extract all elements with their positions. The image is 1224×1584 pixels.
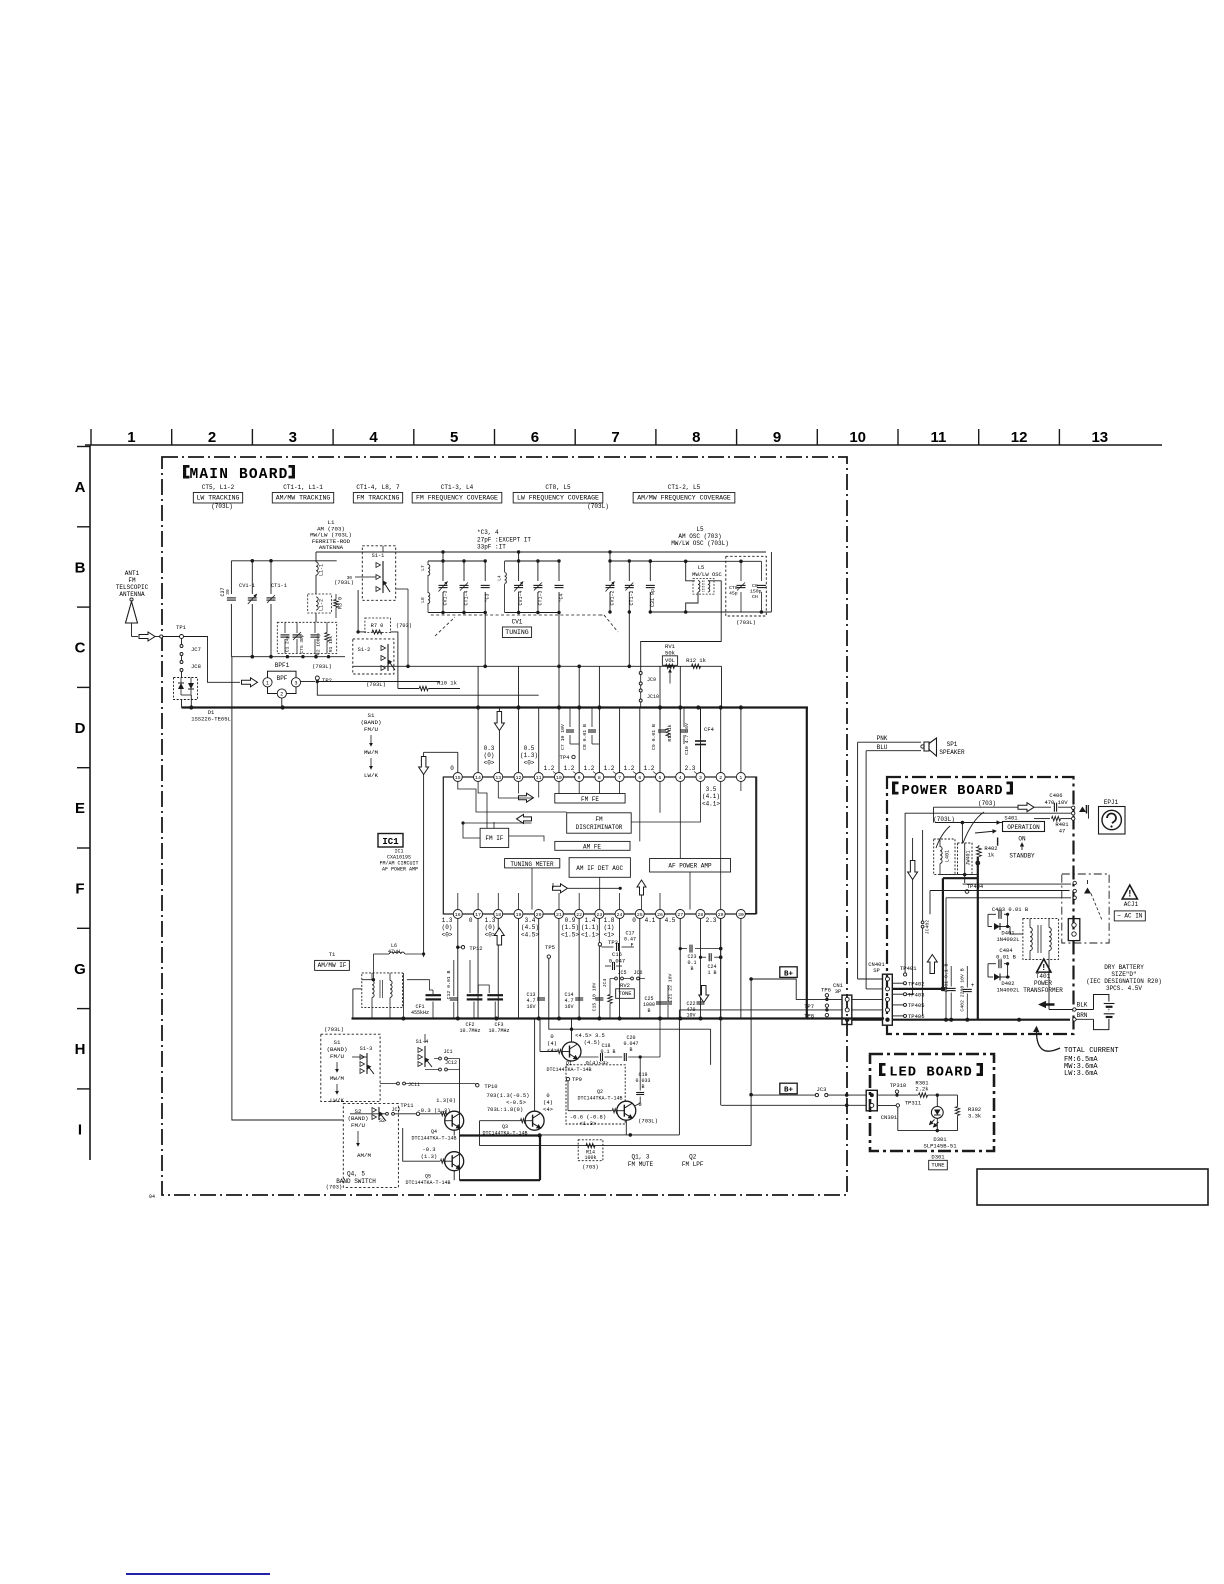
svg-text:S1-4: S1-4 (416, 1039, 429, 1045)
svg-text:(BAND): (BAND) (348, 1115, 369, 1122)
svg-text:1: 1 (739, 775, 742, 781)
IC1 bottom pins 16..30 (453, 910, 462, 919)
svg-text:TP7: TP7 (804, 1003, 814, 1010)
svg-text:13: 13 (1091, 429, 1108, 446)
transistor Q4 (441, 1112, 448, 1116)
svg-text:CT5, L1-2: CT5, L1-2 (202, 484, 235, 491)
svg-text:BPF1: BPF1 (275, 662, 290, 669)
battery symbol (1094, 995, 1109, 1030)
svg-text:LW:3.6mA: LW:3.6mA (1064, 1070, 1098, 1078)
test point TP3 (598, 943, 601, 946)
ceramic filter CF2 (469, 960, 471, 993)
svg-text:150p: 150p (750, 589, 762, 595)
svg-text:7: 7 (618, 775, 621, 781)
svg-text:21: 21 (556, 912, 562, 918)
svg-text:S1-1: S1-1 (372, 553, 385, 559)
svg-text:1.3: 1.3 (485, 917, 496, 924)
svg-text:B: B (690, 966, 693, 972)
svg-text:L4: L4 (497, 575, 503, 581)
svg-text:AF POWER AMP: AF POWER AMP (382, 867, 418, 873)
svg-text:14: 14 (475, 775, 481, 781)
LED BOARD dash-dot border (870, 1054, 994, 1151)
svg-text:A: A (75, 479, 86, 496)
IC1 internal arrows (519, 793, 534, 802)
svg-text:JC1: JC1 (443, 1049, 452, 1055)
svg-text:455kHz: 455kHz (411, 1010, 429, 1016)
FM osc bank L4 CV1-4 CT1-3 C4 (505, 560, 559, 562)
svg-text:ANT1: ANT1 (125, 570, 140, 577)
svg-text:0.5: 0.5 (524, 745, 535, 752)
svg-text:L5: L5 (696, 526, 704, 533)
svg-text:1.2: 1.2 (564, 765, 575, 772)
test point TP12 (461, 946, 464, 949)
svg-text:25: 25 (637, 912, 643, 918)
svg-text:JW401: JW401 (966, 850, 972, 865)
svg-text:(703L): (703L) (587, 503, 609, 510)
svg-text:MW/LW OSC: MW/LW OSC (692, 571, 722, 578)
svg-text:1.2: 1.2 (604, 765, 615, 772)
svg-text:3: 3 (699, 775, 702, 781)
svg-text:FM/U: FM/U (330, 1053, 344, 1060)
svg-text:AM FE: AM FE (583, 843, 601, 850)
audio wire to CN1 pin2 (679, 1009, 842, 1011)
svg-text:1SS226-TE65L: 1SS226-TE65L (191, 716, 231, 723)
svg-text:CT1-4: CT1-4 (464, 590, 470, 605)
svg-text:CT1-1: CT1-1 (271, 583, 287, 589)
svg-text:ANTENNA: ANTENNA (319, 544, 344, 551)
svg-text:B+: B+ (784, 970, 794, 978)
top ruler ticks (90, 429, 92, 445)
left ruler line (89, 445, 91, 1160)
switch S1-1 dashed box (362, 546, 395, 601)
svg-text:Q4: Q4 (431, 1129, 437, 1135)
svg-text:S401: S401 (1004, 815, 1018, 822)
switch wire rows (352, 1056, 367, 1058)
svg-text:26: 26 (657, 912, 663, 918)
AC inlet connector (1068, 919, 1080, 941)
svg-text:AM/MW FREQUENCY COVERAGE: AM/MW FREQUENCY COVERAGE (637, 495, 731, 502)
svg-text:B+: B+ (784, 1087, 794, 1095)
svg-text:C12 0.01 B: C12 0.01 B (446, 970, 452, 999)
svg-text:S1: S1 (368, 712, 375, 719)
svg-text:0: 0 (550, 1033, 553, 1040)
IC1 internal block FM FE (555, 794, 625, 804)
svg-text:<0>: <0> (484, 760, 495, 767)
svg-text:Q1: Q1 (566, 1061, 572, 1067)
transformer T1 (362, 973, 403, 1008)
svg-text:1.8: 1.8 (604, 917, 615, 924)
svg-text:(703): (703) (978, 800, 996, 807)
svg-text:AM/M: AM/M (357, 1152, 371, 1159)
svg-text:CT8, L5: CT8, L5 (545, 484, 571, 491)
svg-text:AM/MW IF: AM/MW IF (318, 962, 347, 969)
diode D402 1N4002L (988, 976, 993, 978)
svg-text:12: 12 (516, 775, 522, 781)
svg-text:CV1-2: CV1-2 (610, 590, 616, 605)
B+ label 1 (780, 967, 797, 978)
svg-text:3.5: 3.5 (706, 786, 717, 793)
test point TP2 (301, 681, 315, 683)
svg-text:10: 10 (849, 429, 866, 446)
POWER BOARD dash-dot border (887, 777, 1074, 1034)
C37 input bank (231, 560, 336, 562)
svg-text:Q1, 3: Q1, 3 (631, 1154, 649, 1161)
svg-text:3.3k: 3.3k (968, 1113, 982, 1120)
svg-text:8: 8 (692, 429, 700, 446)
svg-text:30: 30 (738, 912, 744, 918)
svg-text:L8: L8 (420, 597, 426, 603)
ground bus lower (352, 1017, 885, 1019)
tracking parts dashed box C1 CT5 C2 R1 (277, 622, 336, 653)
svg-text:R10 1k: R10 1k (437, 680, 458, 687)
svg-text:SP: SP (873, 967, 880, 974)
svg-text:I: I (78, 1121, 82, 1138)
svg-text:<4.1>: <4.1> (702, 801, 720, 808)
svg-text:1N4002L: 1N4002L (996, 987, 1019, 994)
wire top bus A (366, 551, 766, 553)
svg-text:MW/LW OSC (703L): MW/LW OSC (703L) (671, 540, 729, 547)
svg-text:(BAND): (BAND) (327, 1046, 348, 1053)
empty note rectangle bottom right (977, 1169, 1208, 1205)
svg-text:(703L): (703L) (638, 1118, 658, 1125)
IC1 internal block FM DISCRIMINATOR (567, 813, 632, 833)
svg-text:D: D (75, 720, 86, 737)
wire TP2 to IF section (317, 682, 538, 696)
mid bus y666 (353, 665, 722, 667)
svg-text:CV1: CV1 (512, 619, 523, 626)
svg-text:POWER: POWER (1034, 980, 1052, 987)
B+ supply rail (750, 979, 752, 1146)
op-amp IC1 body CXA1019S (443, 777, 756, 914)
svg-text:CV1-4: CV1-4 (518, 590, 524, 605)
power ground bus (892, 1019, 1070, 1021)
svg-text:BLK: BLK (1077, 1002, 1088, 1009)
svg-text:R7 0: R7 0 (371, 623, 384, 629)
LED D301 (931, 1107, 943, 1119)
fat down arrow power (908, 861, 918, 880)
svg-text:(1.1): (1.1) (581, 924, 599, 931)
svg-text:LW/K: LW/K (364, 772, 378, 779)
svg-text:TP402: TP402 (908, 981, 925, 988)
svg-text:(IEC DESIGNATION R20): (IEC DESIGNATION R20) (1086, 978, 1162, 985)
svg-text:4.5: 4.5 (665, 917, 676, 924)
svg-text:ACJ1: ACJ1 (1124, 901, 1139, 908)
svg-text:4: 4 (369, 429, 378, 446)
svg-text:3PCS. 4.5V: 3PCS. 4.5V (1106, 985, 1142, 992)
MAIN BOARD title (183, 465, 190, 479)
svg-text:(703L): (703L) (366, 681, 386, 688)
svg-text:JC12: JC12 (445, 1060, 457, 1066)
switch S2 dashed box (343, 1104, 398, 1188)
svg-text:S1: S1 (334, 1039, 341, 1046)
resistor R401 47 (1034, 818, 1050, 820)
svg-text:1: 1 (266, 680, 269, 686)
svg-text:28: 28 (698, 912, 704, 918)
svg-text:*C3: *C3 (485, 593, 491, 602)
svg-text:TP12: TP12 (469, 945, 482, 952)
svg-text:PNK: PNK (877, 735, 888, 742)
svg-text:9: 9 (578, 775, 581, 781)
band pass filter BPF1 (242, 678, 258, 687)
svg-text:2.3: 2.3 (706, 917, 717, 924)
tuning gang dashed line CV1 (431, 614, 600, 616)
svg-text:(1.3): (1.3) (520, 752, 538, 759)
svg-text:TP9: TP9 (572, 1076, 582, 1083)
svg-text:19: 19 (516, 912, 522, 918)
jumper JW401 dashed box (958, 843, 973, 875)
left ruler ticks (77, 446, 90, 448)
svg-text:(4.1): (4.1) (702, 793, 720, 800)
resistor R402 1k (977, 847, 982, 857)
svg-text:SPEAKER: SPEAKER (939, 749, 965, 756)
svg-text:BPF: BPF (277, 675, 288, 682)
svg-text:TP405: TP405 (908, 1002, 925, 1009)
svg-text:3: 3 (294, 680, 297, 686)
svg-text:FM FREQUENCY COVERAGE: FM FREQUENCY COVERAGE (416, 495, 498, 502)
svg-text:CN301: CN301 (881, 1114, 898, 1121)
svg-text:<0>: <0> (442, 932, 453, 939)
svg-text:2: 2 (280, 692, 283, 698)
IC1 internal block AM FE (555, 841, 630, 850)
svg-text:T401: T401 (1036, 973, 1051, 980)
wire arrow into board (139, 632, 155, 641)
svg-text:STANDBY: STANDBY (1009, 853, 1035, 860)
svg-text:DISCRIMINATOR: DISCRIMINATOR (576, 824, 623, 831)
svg-text:Q2: Q2 (689, 1154, 697, 1161)
svg-text:(703): (703) (582, 1164, 599, 1171)
svg-text:LW/K: LW/K (330, 1097, 344, 1104)
LED board bottom wire (898, 1130, 958, 1132)
svg-text:39: 39 (225, 589, 231, 595)
svg-text:(4.5): (4.5) (521, 924, 539, 931)
B+ label 2 (780, 1083, 797, 1094)
svg-text:CT1-3: CT1-3 (537, 590, 543, 605)
svg-text:CT8: CT8 (729, 585, 738, 591)
rectifier wires (963, 883, 1071, 885)
svg-text:2.3: 2.3 (685, 765, 696, 772)
svg-text:D301: D301 (931, 1154, 945, 1161)
IC1 boxed designator (378, 834, 403, 848)
coil L401 dashed box (934, 839, 955, 875)
svg-text:(0): (0) (485, 924, 496, 931)
svg-text:C7 10 10V: C7 10 10V (560, 724, 566, 750)
diode D401 1N4002L (988, 926, 992, 928)
AC inlet dash-dot box (1062, 874, 1109, 943)
risers crossing mid bus (477, 666, 479, 707)
connector CN301 (866, 1090, 877, 1111)
IC1 internal block AM IF DET AGC (569, 858, 630, 878)
svg-text:23: 23 (596, 912, 602, 918)
IC1 top pins 15..1 (453, 773, 462, 782)
svg-text:17: 17 (475, 912, 481, 918)
svg-text:JC7: JC7 (191, 646, 201, 653)
svg-text:C15 10 10V: C15 10 10V (592, 982, 598, 1011)
svg-text:TELSCOPIC: TELSCOPIC (116, 584, 149, 591)
svg-text:2: 2 (719, 775, 722, 781)
svg-text:1k: 1k (988, 852, 995, 859)
svg-text:AM/MW TRACKING: AM/MW TRACKING (276, 495, 331, 502)
jumper JC402 (922, 830, 924, 921)
svg-text:0: 0 (546, 1092, 549, 1099)
svg-text:JC8: JC8 (191, 663, 201, 670)
svg-text:(1): (1) (604, 924, 615, 931)
svg-text:*C3, 4: *C3, 4 (477, 529, 499, 536)
svg-text:0.3: 0.3 (484, 745, 495, 752)
svg-text:<4.5>: <4.5> (521, 932, 539, 939)
svg-text:16: 16 (455, 912, 461, 918)
thick mute wires (460, 1134, 541, 1136)
IC1 internal wires (497, 782, 499, 799)
svg-text:(1.5): (1.5) (561, 924, 579, 931)
svg-text:11: 11 (930, 429, 946, 446)
fat up arrow power (927, 955, 937, 974)
svg-text:(703L): (703L) (736, 619, 756, 626)
svg-text:SLP145B-51: SLP145B-51 (923, 1143, 957, 1150)
svg-text:AM IF DET AGC: AM IF DET AGC (576, 865, 623, 872)
pin risers from bus (477, 708, 479, 773)
svg-text:TRANSFORMER: TRANSFORMER (1023, 987, 1063, 994)
svg-text:G: G (74, 961, 86, 978)
svg-text:0.9: 0.9 (565, 917, 576, 924)
svg-text:C403 0.01 B: C403 0.01 B (992, 906, 1029, 913)
svg-text:B: B (629, 1047, 632, 1053)
svg-text:<1.5>: <1.5> (561, 932, 579, 939)
svg-text:1N4002L: 1N4002L (996, 936, 1019, 943)
svg-text:C21 22 10V: C21 22 10V (668, 973, 674, 1002)
jumper JC7 (181, 639, 183, 645)
svg-text:3: 3 (289, 429, 297, 446)
long verticals to IC pins (457, 752, 459, 772)
svg-text:C9 0.01 B: C9 0.01 B (651, 724, 657, 750)
wires switch to nets (940, 835, 962, 840)
svg-text:45p: 45p (729, 591, 738, 597)
antenna symbol (130, 598, 133, 601)
svg-text:<0>: <0> (524, 760, 535, 767)
resistor R14 dashed box (480, 1145, 752, 1147)
svg-text:CT1-2: CT1-2 (629, 590, 635, 605)
svg-text:FM FE: FM FE (581, 796, 599, 803)
headphone return to TP401 (905, 813, 1071, 973)
svg-text:5: 5 (450, 429, 458, 446)
svg-text:30: 30 (347, 575, 353, 581)
svg-text:(703): (703) (396, 623, 412, 629)
svg-text:JC9: JC9 (647, 677, 656, 683)
svg-text:DTC144TKA-T-14B: DTC144TKA-T-14B (405, 1180, 450, 1186)
svg-text:FM: FM (128, 577, 136, 584)
svg-text:(703L): (703L) (312, 663, 332, 670)
svg-text:TP5: TP5 (545, 944, 555, 951)
svg-text:B: B (641, 1084, 644, 1090)
svg-text:5: 5 (659, 775, 662, 781)
svg-text:DTC144TKA-T-14B: DTC144TKA-T-14B (482, 1131, 527, 1137)
svg-text:R1 10k: R1 10k (328, 636, 334, 653)
wires power board left (933, 807, 935, 822)
svg-text:7: 7 (611, 429, 619, 446)
svg-text:JC4: JC4 (602, 979, 608, 988)
svg-text:MW/M: MW/M (330, 1075, 344, 1082)
top ruler line (85, 444, 1162, 446)
svg-text:POWER BOARD: POWER BOARD (901, 784, 1003, 799)
svg-text:VOL: VOL (665, 657, 675, 664)
svg-text:6: 6 (531, 429, 539, 446)
svg-text:10.7MHz: 10.7MHz (488, 1028, 509, 1034)
svg-text:(0): (0) (442, 924, 453, 931)
svg-text:04: 04 (149, 1194, 155, 1200)
svg-text:CT1-2, L5: CT1-2, L5 (668, 484, 701, 491)
svg-text:CV1-3: CV1-3 (443, 590, 449, 605)
svg-text:4.1: 4.1 (645, 917, 656, 924)
svg-text:(4): (4) (547, 1040, 557, 1047)
svg-text:1: 1 (127, 429, 135, 446)
svg-text:(703L): (703L) (211, 503, 233, 510)
svg-text:6: 6 (638, 775, 641, 781)
svg-text:DTC144TKA-T-14B: DTC144TKA-T-14B (577, 1096, 622, 1102)
svg-text:S1-2: S1-2 (358, 647, 371, 653)
svg-text:FM TRACKING: FM TRACKING (357, 495, 400, 502)
svg-text:AF POWER AMP: AF POWER AMP (668, 863, 712, 870)
svg-text:29: 29 (718, 912, 724, 918)
svg-text:16V: 16V (526, 1004, 535, 1010)
svg-text:(1.3): (1.3) (421, 1153, 438, 1160)
test point TP9 (566, 1077, 569, 1080)
svg-text:CT1-4, L8, 7: CT1-4, L8, 7 (356, 484, 400, 491)
svg-text:1.4: 1.4 (585, 917, 596, 924)
jumper JC8 (180, 661, 183, 664)
svg-text:Q3: Q3 (502, 1124, 508, 1130)
svg-text:FM/U: FM/U (351, 1122, 365, 1129)
svg-text:*C4: *C4 (559, 593, 565, 602)
black arrow ac feed (1038, 1001, 1055, 1008)
transistor Q2 dashed box (566, 1065, 625, 1124)
svg-text:AM OSC (703): AM OSC (703) (678, 533, 721, 540)
svg-text:JC10: JC10 (647, 694, 659, 700)
fat arrow to pin15 (423, 752, 425, 756)
svg-text:24: 24 (617, 912, 623, 918)
svg-text:JC6: JC6 (633, 970, 642, 976)
svg-text:0.047: 0.047 (609, 958, 626, 965)
svg-text:JC5: JC5 (617, 970, 626, 976)
svg-text:IC1: IC1 (382, 837, 399, 847)
svg-text:2.2k: 2.2k (915, 1086, 929, 1093)
variable cap CV1-1 (251, 561, 253, 594)
svg-text:10V: 10V (686, 1013, 695, 1019)
svg-text:1.2: 1.2 (644, 765, 655, 772)
svg-text:<1.1>: <1.1> (581, 932, 599, 939)
svg-text:MAIN BOARD: MAIN BOARD (189, 467, 288, 483)
svg-text:1 B: 1 B (707, 970, 716, 976)
wire TP2 right (319, 681, 440, 683)
svg-text:47: 47 (1059, 828, 1066, 835)
svg-text:TP1: TP1 (176, 624, 187, 631)
ceramic filter CF1 455kHz (407, 980, 433, 990)
svg-text:0(4)<4>: 0(4)<4> (585, 1060, 608, 1067)
svg-text:DRY BATTERY: DRY BATTERY (1104, 964, 1144, 971)
svg-text:C: C (75, 640, 86, 657)
svg-text:(4.5): (4.5) (584, 1039, 601, 1046)
svg-text:TP8: TP8 (804, 1013, 814, 1020)
svg-text:13: 13 (495, 775, 501, 781)
svg-text:<4.5> 3.5: <4.5> 3.5 (575, 1032, 605, 1039)
secondary to battery wire (1048, 959, 1050, 1009)
svg-text:MW/M: MW/M (364, 749, 378, 756)
svg-text:(703L): (703L) (933, 816, 955, 823)
thick vertical to ground (806, 708, 808, 1019)
svg-text:(BAND): (BAND) (361, 719, 382, 726)
svg-text:(703): (703) (326, 1184, 343, 1191)
interboard wires CN1-CN401 (852, 998, 883, 1000)
rectifier block joins (1007, 914, 1009, 926)
svg-text:1.2: 1.2 (584, 765, 595, 772)
